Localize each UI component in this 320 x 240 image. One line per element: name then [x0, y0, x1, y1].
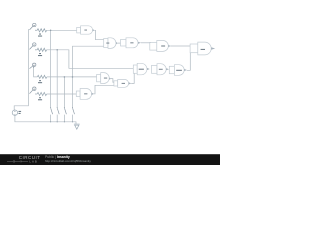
- switch SW4 (row4 toggle): [30, 87, 37, 94]
- wire: left vertical bus from V1: [14, 29, 190, 124]
- wire: G1 out to G2 in1: [95, 30, 104, 39]
- gate G1 (NOT): [77, 26, 93, 34]
- gate G6b: [114, 80, 129, 88]
- switch SW2 (row2 toggle): [30, 43, 37, 50]
- resistor R4: [37, 92, 46, 95]
- gate G7 (row4): [76, 89, 91, 100]
- gate GA: [133, 63, 147, 75]
- bottom switch SW7: [65, 108, 67, 114]
- wire: riser rail4 (gate G2 input2 feeder): [73, 46, 104, 107]
- CircuitLab logo: [19, 155, 41, 160]
- wire: G6b out up to GA in2: [131, 73, 134, 83]
- gate G6 (row3): [97, 73, 110, 84]
- wire: rail2 down: [56, 50, 58, 108]
- wire: rail1 down: [50, 30, 52, 107]
- switch SW1 (row1 toggle): [30, 23, 37, 30]
- gate G4 (AND): [150, 41, 169, 52]
- wire: G3 out to G4: [141, 42, 150, 44]
- switch SW3 (row3 toggle): [30, 63, 36, 68]
- bottom switch SW5: [51, 108, 53, 114]
- wire: row1 to gate G1: [36, 29, 37, 31]
- CircuitLab logo wire glyph: [7, 160, 28, 162]
- svg-text:http://circuitlab.com/c/qf59/i: http://circuitlab.com/c/qf59/insanity: [45, 159, 91, 163]
- label V1 value: [19, 111, 22, 114]
- footer title text: [45, 155, 91, 163]
- junction dots: [50, 30, 151, 123]
- wire: G2 out to G3: [118, 42, 121, 44]
- ground: [74, 124, 80, 129]
- label R2 value: [39, 53, 41, 54]
- wire: row3 to gate G6: [47, 76, 97, 78]
- resistor R2: [37, 48, 46, 51]
- resistor R3: [37, 75, 46, 78]
- gate G5 (NAND, output): [190, 42, 211, 55]
- voltage source V1: [12, 110, 17, 115]
- label R3 value: [39, 80, 41, 81]
- gate GB: [152, 64, 167, 75]
- bottom switch SW8: [73, 108, 75, 114]
- resistor R1: [37, 29, 46, 32]
- wire: G4 out to G5 in1: [170, 45, 190, 47]
- label R4 value: [39, 97, 41, 98]
- bottom switch SW6: [57, 108, 59, 114]
- label R1 value: [38, 34, 42, 101]
- wire: row4: [36, 93, 37, 95]
- gate G3 (buffer): [121, 38, 139, 48]
- wire: row2: [36, 49, 37, 51]
- wire: row3 switch drop: [34, 67, 38, 77]
- wire: G5 in2 riser from GC: [187, 53, 191, 71]
- wire: V1 bottom to ground bus: [15, 115, 76, 124]
- wire: G7 out up to G6b in2: [94, 85, 114, 94]
- wire: rail3 down: [63, 77, 65, 108]
- gate GC: [169, 65, 184, 76]
- svg-text:LAB: LAB: [29, 160, 37, 164]
- wire: G6 out to G6b: [111, 79, 114, 83]
- gate G2 (AND): [104, 38, 116, 49]
- footer black bar: [0, 154, 220, 165]
